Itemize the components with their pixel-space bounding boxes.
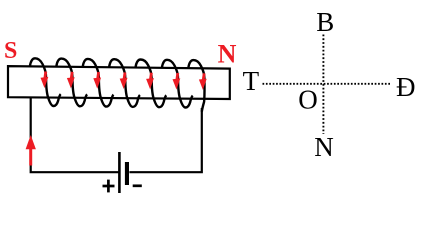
- svg-text:Đ: Đ: [396, 72, 416, 102]
- coil turn 2: [56, 59, 87, 107]
- current arrow 1: [41, 72, 49, 89]
- svg-text:T: T: [243, 66, 260, 96]
- coil turn 6: [162, 60, 193, 108]
- solenoid core: [8, 66, 230, 99]
- svg-text:S: S: [4, 38, 17, 64]
- current arrow 7: [199, 73, 207, 90]
- battery label plus: [103, 180, 115, 193]
- current arrow 5: [146, 73, 154, 90]
- current arrow on left wire: [26, 135, 36, 166]
- wire left vertical and bottom left: [31, 97, 119, 172]
- coil turn 7: [188, 60, 204, 112]
- svg-text:N: N: [314, 132, 334, 162]
- coil turn 4: [109, 59, 140, 107]
- current arrow 3: [93, 72, 101, 89]
- coil turn 5: [136, 60, 167, 108]
- current arrow 6: [173, 73, 181, 90]
- svg-text:N: N: [218, 40, 237, 69]
- current arrow 2: [67, 72, 75, 89]
- compass axis horizontal dotted: [263, 83, 392, 85]
- svg-text:B: B: [316, 7, 334, 37]
- coil turn 3: [83, 59, 114, 107]
- svg-text:O: O: [298, 84, 318, 114]
- compass axis vertical dotted: [322, 35, 324, 135]
- battery B1 plate positive: [118, 152, 121, 193]
- battery B1 plate negative: [125, 162, 129, 185]
- coil turn 1: [30, 58, 61, 106]
- current arrow 4: [120, 72, 128, 89]
- battery label minus: [133, 184, 142, 187]
- wire bottom right and right vertical: [129, 108, 201, 172]
